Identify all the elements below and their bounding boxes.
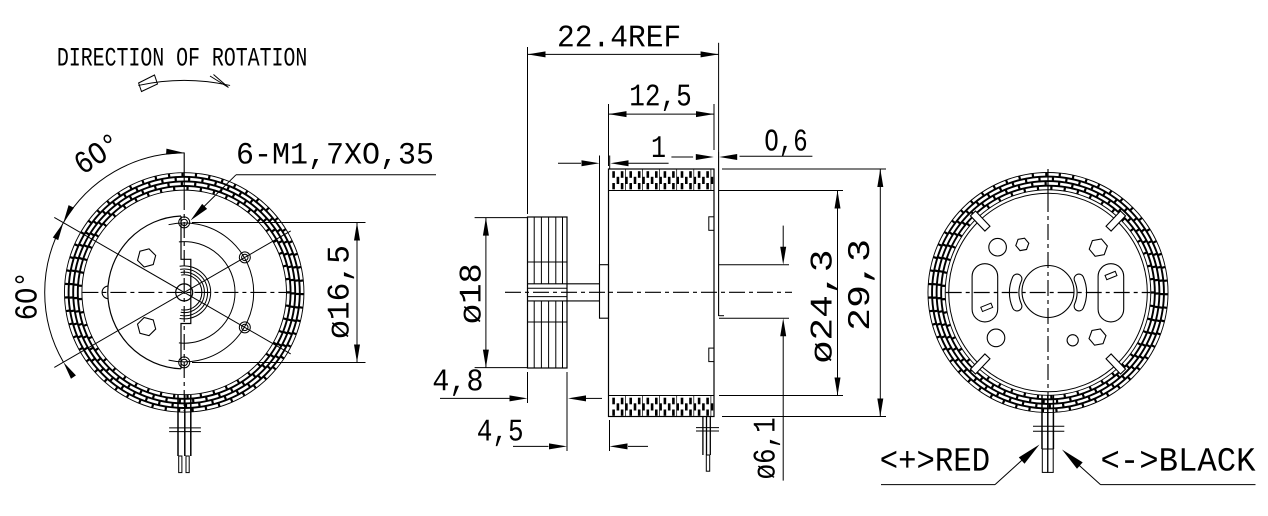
right view: rim notch 1 [1106, 211, 1126, 231]
dimension 4,8 lines [527, 372, 529, 403]
right view: hole upper-right (hex) [1089, 239, 1107, 256]
left view: screw hole M1.7 #2 [179, 357, 190, 368]
left view: screw hole leader line [236, 174, 436, 176]
text: DIRECTION OF ROTATION [58, 48, 305, 66]
right view: commutator slot right [1074, 274, 1086, 311]
right view: rim notch 3 [970, 354, 990, 374]
left view: weight hole upper-left [138, 249, 156, 267]
text: 6-M1,7X0,35 [238, 143, 432, 169]
side view: motor shaft [528, 283, 600, 285]
left view: horizontal center line [82, 291, 286, 293]
left view: screw hole M1.7 #4 [239, 322, 250, 333]
side view: end cap tab upper [709, 217, 714, 231]
left view: weight hole lower-left [138, 318, 156, 336]
text: 0,6 [765, 129, 806, 156]
right view: horizontal center line [946, 292, 1151, 294]
dimension dia 6,1 lines [719, 264, 789, 266]
side view: bearing boss [600, 265, 609, 319]
left view: eccentric weight (half-disc with flat edge and boss) [108, 216, 181, 369]
dimension 4,5 lines [609, 420, 611, 451]
side view: knurled ring band (top) [624, 170, 626, 191]
left view: diagonal center line 210-30 deg [54, 231, 290, 368]
text: 29,3 [848, 241, 875, 328]
right view: hole lower-right (hex) [1089, 329, 1106, 345]
left view: direction-of-rotation arrow arc [138, 80, 230, 85]
right view: knurled rubber ring (brick pattern annulus) [928, 172, 1169, 413]
side view: lead wires [702, 417, 704, 456]
right view: commutator slot left [1009, 274, 1021, 311]
left view: weight rim bump [102, 286, 108, 299]
left view: shaft circle [176, 284, 193, 301]
right view: hole upper-left [989, 238, 1007, 256]
dimension 22.4REF lines [527, 47, 529, 214]
right view: hole lower-mid [1067, 335, 1078, 346]
right view: lead wires [1041, 395, 1043, 449]
left view: dia 16,5 dimension lines [192, 222, 366, 224]
text: 1 [653, 136, 665, 157]
right view: brush oval right [1098, 264, 1124, 322]
left view: 60 deg label left [15, 276, 37, 319]
side view: end cap tab lower [709, 348, 714, 362]
label leader: (+)RED [881, 484, 995, 486]
label leader: (-)BLACK [1101, 484, 1256, 486]
text: dia 24,3 [810, 252, 837, 362]
left view: bolt circle arc [169, 223, 254, 362]
left view: rotor circle arc [179, 242, 235, 344]
dimension dia 24,3 lines [719, 190, 843, 192]
dimension 0,6 lines [671, 156, 693, 158]
left view: screw hole M1.7 #1 [179, 217, 190, 228]
side view: eccentric weight (knurled cylinder) [528, 217, 568, 368]
right view: rim notch 4 [1106, 354, 1126, 374]
right view: rim notch 2 [970, 211, 990, 231]
left view: diagonal center line 150-330 deg [54, 217, 290, 354]
side view: motor body outline [609, 169, 715, 417]
left view: bearing hub arcs [181, 275, 202, 310]
dimension 29,3 lines [722, 168, 886, 170]
right view: hole upper-mid (hex) [1016, 238, 1029, 250]
text: 4,5 [478, 420, 522, 446]
left view: lead wires [177, 395, 179, 456]
right view: end-cap rim circle [949, 193, 1148, 392]
side view: knurled ring band (bottom) [624, 396, 626, 416]
right view: vertical center line [1047, 169, 1049, 196]
text: 12,5 [631, 84, 690, 111]
text: dia 16,5 [327, 247, 354, 337]
dimension 1 lines [558, 162, 581, 164]
right view: hole lower-left [987, 329, 1005, 347]
right view: shaft bushing circle [1022, 266, 1074, 318]
left view: 60 deg dimension arc (lower) [45, 223, 64, 363]
left view: screw hole M1.7 #3 [239, 252, 250, 263]
text: 4,8 [434, 369, 482, 396]
text: 22.4REF [559, 25, 679, 46]
text: dia 6,1 [753, 419, 780, 478]
side view: end cap edge line [718, 152, 720, 316]
left view: 60 deg label upper [72, 133, 120, 174]
left view: knurled rubber ring (brick pattern annulus) [64, 172, 304, 412]
side view: horizontal center line [505, 291, 792, 293]
text: (+)RED [881, 448, 988, 470]
dimension 12,5 lines [608, 104, 610, 166]
right view: brush oval left [972, 264, 998, 322]
text: (-)BLACK [1102, 448, 1255, 471]
left view: 60 deg dimension arc (upper) [63, 153, 184, 223]
text: dia 18 [459, 265, 480, 322]
dimension dia 18 lines [475, 217, 528, 219]
left view: vertical center line [183, 153, 185, 195]
